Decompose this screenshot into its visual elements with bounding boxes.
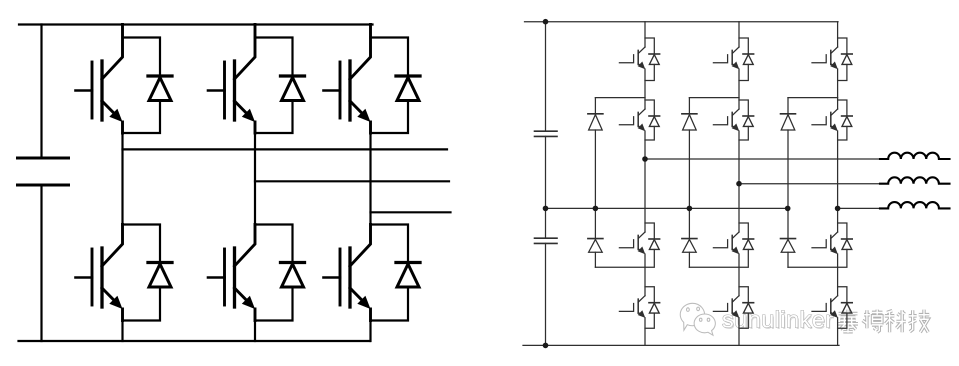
- wire: DC- bottom bus (3-level inverter): [523, 344, 839, 346]
- IGBT Q2 (phase B high-side): gate bar: [223, 62, 226, 118]
- IGBT S31: emitter diagonal with arrow: [831, 64, 836, 68]
- diode D5 (phase B low-side): anti-parallel branch wires: [255, 225, 293, 321]
- IGBT S21: emitter arrowhead: [732, 62, 740, 70]
- wire: neutral point bus: [546, 207, 788, 209]
- IGBT Q2 (phase B high-side): collector lead: [235, 25, 256, 80]
- IGBT Q1 (phase A high-side): gate lead: [76, 89, 93, 92]
- diode D5 (phase B low-side): triangle: [282, 264, 304, 287]
- diode S32D (anti-parallel): cathode bar: [842, 115, 853, 117]
- decorative watermark glyph: Chinese character bo (of 赛博科技): [863, 310, 883, 333]
- IGBT Q2 (phase B high-side): emitter arrowhead: [242, 109, 255, 122]
- IGBT Q1 (phase A high-side): emitter lead with arrow: [102, 101, 123, 133]
- wire: phase 1 output line: [645, 158, 888, 160]
- IGBT S13: gate bar and lead: [619, 240, 633, 248]
- IGBT Q4 (phase A low-side): emitter arrowhead: [109, 296, 122, 309]
- IGBT S24: emitter arrowhead: [732, 310, 740, 318]
- IGBT Q1 (phase A high-side): gate bar: [91, 62, 94, 118]
- IGBT S24: snubber loop wires: [739, 287, 748, 329]
- diode D2 (phase B high-side): cathode bar: [281, 74, 305, 77]
- IGBT S24: collector diagonal: [732, 296, 739, 303]
- wire: DC-link rail segment above C2: [545, 22, 547, 132]
- IGBT S31: snubber loop wires: [838, 38, 847, 81]
- IGBT Q5 (phase B low-side): gate bar: [223, 249, 226, 305]
- wire: phase 2 output line: [739, 183, 888, 185]
- wire: clamp branch leg 1 top connection: [595, 97, 645, 99]
- diode D4 (phase A low-side): cathode bar: [148, 261, 172, 264]
- diode S23D (anti-parallel): triangle: [743, 240, 753, 250]
- IGBT Q1 (phase A high-side): collector lead: [102, 25, 123, 80]
- IGBT Q3 (phase C high-side): body bar: [348, 61, 351, 120]
- wire: NPC leg 3 vertical segments: [837, 22, 839, 346]
- wire: phase B output line: [255, 180, 449, 182]
- IGBT Q4 (phase A low-side): collector lead: [102, 225, 123, 267]
- diode D1 (phase A high-side): anti-parallel branch wires: [123, 38, 161, 134]
- IGBT Q2 (phase B high-side): gate lead: [208, 89, 225, 92]
- capacitor C1 (DC-link) top plate: [18, 157, 69, 160]
- junction: phase 3 output tap: [835, 206, 841, 212]
- diode S13D (anti-parallel): cathode bar: [649, 238, 660, 240]
- IGBT S34: snubber loop wires: [838, 287, 847, 329]
- inductor L2 (phase 2 filter): [880, 177, 950, 183]
- IGBT S23: snubber loop wires: [739, 223, 748, 267]
- diode D2 (phase B high-side): triangle: [282, 78, 304, 101]
- clamp diode leg 1 upper: cathode bar: [588, 113, 603, 115]
- junction: DC+ bus / rail: [543, 19, 549, 25]
- junction: phase 1 output tap: [642, 156, 648, 162]
- diode D3 (phase C high-side): triangle: [397, 78, 419, 101]
- wire: phase C leg bottom vertical: [369, 321, 371, 342]
- IGBT S23: emitter diagonal with arrow: [732, 249, 737, 253]
- IGBT Q2 (phase B high-side): body bar: [233, 61, 236, 120]
- IGBT S32: body bar: [830, 112, 832, 126]
- junction: phase 2 output tap: [736, 181, 742, 187]
- diode D4 (phase A low-side): triangle: [149, 264, 171, 287]
- IGBT S33: emitter arrowhead: [830, 247, 838, 255]
- decorative watermark glyph: Chinese character ji (of 赛博科技): [909, 310, 929, 333]
- IGBT S21: emitter diagonal with arrow: [732, 64, 737, 68]
- IGBT S11: body bar: [637, 50, 639, 64]
- IGBT S32: gate bar and lead: [812, 117, 826, 125]
- IGBT S24: gate bar and lead: [713, 304, 727, 312]
- wire: clamp branch leg 2 bottom connection: [689, 266, 739, 268]
- IGBT Q5 (phase B low-side): gate lead: [208, 276, 225, 279]
- IGBT Q3 (phase C high-side): emitter lead with arrow: [350, 101, 371, 133]
- IGBT S13: emitter arrowhead: [638, 247, 646, 255]
- IGBT Q5 (phase B low-side): body bar: [233, 248, 236, 307]
- decorative watermark glyph: Chinese character ke (of 赛博科技): [885, 310, 906, 332]
- diode D3 (phase C high-side): anti-parallel branch wires: [371, 38, 409, 134]
- IGBT Q6 (phase C low-side): emitter lead with arrow: [350, 288, 371, 321]
- IGBT Q2 (phase B high-side): emitter lead with arrow: [235, 101, 256, 133]
- diode D6 (phase C low-side): cathode bar: [396, 261, 420, 264]
- IGBT Q6 (phase C low-side): collector lead: [350, 225, 371, 267]
- IGBT Q3 (phase C high-side): emitter arrowhead: [357, 109, 370, 122]
- wire: clamp branch leg 3 top connection: [788, 97, 838, 99]
- decorative watermark glyph: Chinese character sai (of 赛博科技): [838, 310, 858, 333]
- diode D5 (phase B low-side): cathode bar: [281, 261, 305, 264]
- IGBT S14: gate bar and lead: [619, 304, 633, 312]
- IGBT S32: emitter diagonal with arrow: [831, 126, 836, 130]
- IGBT S23: collector diagonal: [732, 232, 739, 239]
- IGBT S21: snubber loop wires: [739, 38, 748, 81]
- IGBT Q1 (phase A high-side): emitter arrowhead: [109, 109, 122, 122]
- clamp diode leg 3 lower: cathode bar: [781, 238, 796, 240]
- IGBT S23: gate bar and lead: [713, 240, 727, 248]
- diode S12D (anti-parallel): cathode bar: [649, 115, 660, 117]
- clamp diode leg 1 lower: triangle: [589, 239, 603, 252]
- wire: phase A leg bottom vertical: [121, 321, 123, 342]
- diode S21D (anti-parallel): cathode bar: [743, 53, 754, 55]
- diode D2 (phase B high-side): anti-parallel branch wires: [255, 38, 293, 134]
- junction: neutral / clamp leg 3: [785, 206, 791, 212]
- clamp diode leg 2 lower: triangle: [683, 239, 697, 252]
- IGBT Q1 (phase A high-side): body bar: [100, 61, 103, 120]
- IGBT S22: gate bar and lead: [713, 117, 727, 125]
- capacitor C1 (DC-link) bottom plate: [18, 184, 69, 187]
- IGBT Q6 (phase C low-side): gate lead: [324, 276, 341, 279]
- diode D6 (phase C low-side): anti-parallel branch wires: [371, 225, 409, 321]
- IGBT Q4 (phase A low-side): emitter lead with arrow: [102, 288, 123, 321]
- wire: phase C leg midpoint vertical: [369, 133, 371, 225]
- decorative watermark text: sunulinker: [722, 307, 835, 335]
- IGBT S12: snubber loop wires: [645, 100, 654, 140]
- wire: phase B leg bottom vertical: [254, 321, 256, 342]
- IGBT S33: emitter diagonal with arrow: [831, 249, 836, 253]
- IGBT S21: body bar: [731, 50, 733, 64]
- clamp diode leg 2 upper: triangle: [683, 115, 697, 130]
- IGBT Q3 (phase C high-side): gate bar: [339, 62, 342, 118]
- IGBT S21: gate bar and lead: [713, 55, 727, 63]
- IGBT S32: snubber loop wires: [838, 100, 847, 140]
- junction: DC- bus / rail: [543, 343, 549, 349]
- IGBT S33: gate bar and lead: [812, 240, 826, 248]
- IGBT Q4 (phase A low-side): gate lead: [76, 276, 93, 279]
- wire: phase C output line: [371, 211, 451, 213]
- IGBT S31: emitter arrowhead: [830, 62, 838, 70]
- IGBT S13: snubber loop wires: [645, 223, 654, 267]
- inductor L1 (phase 1 filter): [880, 153, 950, 159]
- junction: neutral / DC-link midpoint: [543, 206, 549, 212]
- diode S13D (anti-parallel): triangle: [649, 240, 659, 250]
- diode D3 (phase C high-side): cathode bar: [396, 74, 420, 77]
- diode S24D (anti-parallel): cathode bar: [743, 302, 754, 304]
- IGBT S31: gate bar and lead: [812, 55, 826, 63]
- wire: clamp branch leg 1 bottom connection: [595, 266, 645, 268]
- IGBT S34: emitter arrowhead: [830, 310, 838, 318]
- diode S34D (anti-parallel): triangle: [842, 303, 852, 313]
- wire: phase A leg midpoint vertical: [121, 133, 123, 225]
- wire: NPC leg 1 vertical segments: [644, 22, 646, 346]
- diode S22D (anti-parallel): cathode bar: [743, 115, 754, 117]
- IGBT S13: body bar: [637, 235, 639, 249]
- clamp diode leg 3 lower: triangle: [781, 239, 795, 252]
- clamp diode leg 1 lower: cathode bar: [588, 238, 603, 240]
- IGBT S34: collector diagonal: [831, 296, 838, 303]
- diode S32D (anti-parallel): triangle: [842, 117, 852, 127]
- diode D6 (phase C low-side): triangle: [397, 264, 419, 287]
- capacitor C2 (upper DC-link) plates: [535, 131, 558, 136]
- wire: clamp branch leg 2 top connection: [689, 97, 739, 99]
- IGBT Q3 (phase C high-side): collector lead: [350, 25, 371, 80]
- IGBT S11: collector diagonal: [638, 47, 645, 54]
- IGBT Q6 (phase C low-side): emitter arrowhead: [357, 296, 370, 309]
- wire: clamp branch leg 1 vertical: [594, 98, 596, 268]
- IGBT S12: emitter diagonal with arrow: [638, 126, 643, 130]
- IGBT S21: collector diagonal: [732, 47, 739, 54]
- IGBT S22: collector diagonal: [732, 109, 739, 116]
- diode S31D (anti-parallel): triangle: [842, 55, 852, 65]
- junction: neutral / clamp leg 1: [593, 206, 599, 212]
- IGBT S14: snubber loop wires: [645, 287, 654, 329]
- diode S33D (anti-parallel): cathode bar: [842, 238, 853, 240]
- wire: DC-link left rail upper segment: [40, 25, 42, 159]
- IGBT Q3 (phase C high-side): gate lead: [324, 89, 341, 92]
- diode S23D (anti-parallel): cathode bar: [743, 238, 754, 240]
- diode S24D (anti-parallel): triangle: [743, 303, 753, 313]
- IGBT S33: body bar: [830, 235, 832, 249]
- IGBT S22: emitter diagonal with arrow: [732, 126, 737, 130]
- IGBT S14: emitter diagonal with arrow: [638, 312, 643, 316]
- IGBT S34: body bar: [830, 299, 832, 313]
- clamp diode leg 2 lower: cathode bar: [682, 238, 697, 240]
- diode S34D (anti-parallel): cathode bar: [842, 302, 853, 304]
- clamp diode leg 1 upper: triangle: [589, 115, 603, 130]
- IGBT S22: body bar: [731, 112, 733, 126]
- wire: DC+ top bus (2-level inverter): [19, 23, 373, 25]
- IGBT S23: body bar: [731, 235, 733, 249]
- IGBT S11: gate bar and lead: [619, 55, 633, 63]
- wire: clamp branch leg 2 vertical: [688, 98, 690, 268]
- wire: DC-link rail segment below C3: [545, 243, 547, 345]
- IGBT S14: emitter arrowhead: [638, 310, 646, 318]
- inductor L3 (phase 3 filter): [880, 202, 950, 208]
- wire: phase A output line: [123, 148, 448, 150]
- wire: DC+ top bus (3-level inverter): [525, 21, 839, 23]
- diode S21D (anti-parallel): triangle: [743, 55, 753, 65]
- IGBT S32: collector diagonal: [831, 109, 838, 116]
- diode D1 (phase A high-side): cathode bar: [148, 74, 172, 77]
- IGBT S11: emitter diagonal with arrow: [638, 64, 643, 68]
- diode S22D (anti-parallel): triangle: [743, 117, 753, 127]
- diode S12D (anti-parallel): triangle: [649, 117, 659, 127]
- wire: clamp branch leg 3 vertical: [787, 98, 789, 268]
- IGBT S14: body bar: [637, 299, 639, 313]
- wire: NPC leg 2 vertical segments: [738, 22, 740, 346]
- diode D4 (phase A low-side): anti-parallel branch wires: [123, 225, 161, 321]
- clamp diode leg 3 upper: triangle: [781, 115, 795, 130]
- decorative watermark logo: chat bubbles: [680, 303, 715, 335]
- IGBT Q5 (phase B low-side): collector lead: [235, 225, 256, 267]
- IGBT Q4 (phase A low-side): body bar: [100, 248, 103, 307]
- IGBT Q5 (phase B low-side): emitter lead with arrow: [235, 288, 256, 321]
- IGBT S12: body bar: [637, 112, 639, 126]
- diode D1 (phase A high-side): triangle: [149, 78, 171, 101]
- IGBT S34: gate bar and lead: [812, 304, 826, 312]
- diode S11D (anti-parallel): triangle: [649, 55, 659, 65]
- IGBT S31: collector diagonal: [831, 47, 838, 54]
- IGBT Q6 (phase C low-side): body bar: [348, 248, 351, 307]
- IGBT S12: collector diagonal: [638, 109, 645, 116]
- junction: neutral / clamp leg 2: [687, 206, 693, 212]
- IGBT S11: snubber loop wires: [645, 38, 654, 81]
- IGBT S14: collector diagonal: [638, 296, 645, 303]
- IGBT S11: emitter arrowhead: [638, 62, 646, 70]
- capacitor C3 (lower DC-link) plates: [535, 238, 558, 243]
- wire: DC-link rail segment between C2 and C3: [545, 136, 547, 238]
- IGBT S31: body bar: [830, 50, 832, 64]
- IGBT S32: emitter arrowhead: [830, 124, 838, 132]
- clamp diode leg 2 upper: cathode bar: [682, 113, 697, 115]
- wire: DC-link left rail lower segment: [40, 185, 42, 341]
- IGBT S13: collector diagonal: [638, 232, 645, 239]
- IGBT S34: emitter diagonal with arrow: [831, 312, 836, 316]
- diode S11D (anti-parallel): cathode bar: [649, 53, 660, 55]
- IGBT Q4 (phase A low-side): gate bar: [91, 249, 94, 305]
- wire: phase 3 output line: [838, 207, 889, 209]
- clamp diode leg 3 upper: cathode bar: [781, 113, 796, 115]
- diode S33D (anti-parallel): triangle: [842, 240, 852, 250]
- IGBT S12: gate bar and lead: [619, 117, 633, 125]
- diode S14D (anti-parallel): triangle: [649, 303, 659, 313]
- diode S31D (anti-parallel): cathode bar: [842, 53, 853, 55]
- IGBT S23: emitter arrowhead: [732, 247, 740, 255]
- IGBT S33: collector diagonal: [831, 232, 838, 239]
- IGBT S12: emitter arrowhead: [638, 124, 646, 132]
- IGBT S13: emitter diagonal with arrow: [638, 249, 643, 253]
- wire: DC- bottom bus (2-level inverter): [19, 340, 371, 342]
- wire: phase B leg midpoint vertical: [254, 133, 256, 225]
- IGBT Q6 (phase C low-side): gate bar: [339, 249, 342, 305]
- wire: clamp branch leg 3 bottom connection: [788, 266, 838, 268]
- IGBT S33: snubber loop wires: [838, 223, 847, 267]
- IGBT S22: emitter arrowhead: [732, 124, 740, 132]
- IGBT Q5 (phase B low-side): emitter arrowhead: [242, 296, 255, 309]
- diode S14D (anti-parallel): cathode bar: [649, 302, 660, 304]
- IGBT S24: body bar: [731, 299, 733, 313]
- IGBT S24: emitter diagonal with arrow: [732, 312, 737, 316]
- IGBT S22: snubber loop wires: [739, 100, 748, 140]
